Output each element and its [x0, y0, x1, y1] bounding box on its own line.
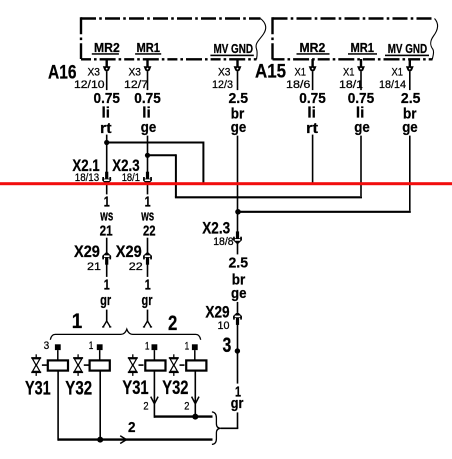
svg-text:ge: ge: [354, 119, 370, 136]
wire label 0.75 li rt: [297, 90, 328, 137]
wire label 0.75 li ge: [346, 90, 377, 136]
svg-text:1: 1: [145, 340, 150, 352]
svg-text:12/7: 12/7: [124, 79, 148, 91]
coil Y31 left: [48, 360, 68, 370]
svg-text:2: 2: [143, 400, 148, 412]
A15 pin X1 18/6: [286, 59, 317, 91]
svg-text:gr: gr: [231, 395, 244, 412]
A16 pin label MR1 (underlined): [135, 41, 161, 55]
control unit A16 box (dash-dot outline, torn right edge): [81, 17, 266, 59]
wire MR2 branch to A15 (horizontal then down): [107, 142, 314, 185]
junction dot MR2 branch: [104, 140, 109, 145]
brace over valve group: [50, 329, 200, 340]
A16 pin X3 12/7: [124, 59, 151, 91]
wire to X29 21 end: [106, 262, 108, 322]
control unit A15 box (dash-dot outline, torn right edge): [273, 17, 438, 59]
pin 3 of Y31 left: [44, 340, 61, 361]
svg-text:18/8: 18/8: [213, 236, 233, 248]
svg-text:X3: X3: [218, 67, 231, 79]
svg-text:2: 2: [128, 419, 136, 436]
svg-text:gr: gr: [100, 292, 111, 309]
svg-text:2.5: 2.5: [229, 255, 249, 272]
svg-text:18/1: 18/1: [339, 79, 363, 91]
connector X29 pin 21: [74, 242, 111, 273]
svg-text:ge: ge: [231, 119, 247, 136]
wire label 2.5 br ge: [227, 254, 251, 302]
svg-text:1: 1: [185, 340, 190, 352]
svg-text:rt: rt: [306, 120, 318, 137]
wire MR2 below interface line: [106, 185, 108, 254]
wire X29 10 down to valves: [237, 322, 239, 429]
connector symbol X2.1 18/13: [105, 172, 108, 179]
connector X2.3 pin 18/1 label: [112, 156, 140, 184]
junction dot MV GND to A15 branch: [235, 209, 241, 215]
coil Y32 left: [90, 360, 110, 370]
svg-text:3: 3: [223, 334, 232, 357]
svg-text:A15: A15: [255, 61, 286, 83]
wire label 0.75 li ge: [132, 90, 163, 136]
connector X2.1 pin 18/13 label: [72, 156, 99, 184]
valve Y31 (left group) symbol: [31, 354, 47, 376]
wire label 2.5 br ge: [399, 90, 423, 136]
wire A16 MR1 down from pin: [147, 72, 149, 175]
svg-text:MR2: MR2: [300, 41, 326, 55]
valve Y31 (right group) symbol: [128, 354, 144, 376]
wire labels 1 gr: [98, 276, 113, 309]
wire labels 1 gr: [229, 384, 246, 413]
wire labels 1 gr: [140, 276, 155, 309]
valve Y32 (right group) symbol: [169, 354, 185, 376]
svg-text:1: 1: [72, 310, 83, 333]
wire end symbol (continuation) 21: [103, 321, 106, 327]
svg-text:2: 2: [168, 312, 177, 335]
svg-text:li: li: [307, 104, 316, 121]
connector X29 pin 10: [205, 302, 242, 332]
svg-text:3: 3: [44, 340, 50, 352]
connector X29 pin 22: [116, 242, 152, 273]
red separation line (current flow highlight): [0, 182, 452, 185]
wire Y32 left to ground bus: [99, 371, 101, 440]
svg-text:li: li: [102, 104, 111, 121]
wire label 0.75 li rt: [92, 90, 123, 137]
wire MV GND branch to A15: [238, 211, 411, 213]
junction dot ground bus 1: [97, 437, 103, 443]
svg-text:MR1: MR1: [137, 41, 161, 55]
wire Y31 left to ground bus: [57, 371, 59, 441]
connector symbol X2.3 18/1: [146, 172, 149, 179]
svg-text:X2.3: X2.3: [202, 219, 230, 238]
wire to X29 22 end: [147, 262, 149, 322]
wire labels 1 ws 22: [139, 193, 158, 239]
svg-text:MR1: MR1: [351, 41, 375, 55]
svg-text:ge: ge: [402, 119, 418, 136]
A16 pin X3 12/3: [212, 59, 241, 91]
svg-text:ge: ge: [231, 285, 247, 302]
A15 pin X1 18/1: [339, 59, 365, 91]
svg-text:22: 22: [129, 261, 143, 273]
svg-text:12/10: 12/10: [74, 79, 105, 91]
svg-text:1: 1: [104, 276, 110, 293]
coil Y31 right: [145, 360, 165, 370]
pin 1 of Y32 right: [185, 340, 198, 360]
svg-text:12/3: 12/3: [212, 79, 233, 91]
junction dot on ground wire: [235, 348, 240, 353]
valve Y32 (left group) symbol: [73, 354, 89, 376]
A16 pin label MV GND (underlined): [210, 42, 253, 56]
wire A16 MR2 down from pin: [106, 72, 108, 175]
svg-text:MV GND: MV GND: [388, 42, 428, 56]
pin 1 of Y32 left: [89, 340, 103, 361]
svg-text:rt: rt: [100, 120, 112, 137]
pin 1 of Y31 right: [145, 340, 157, 360]
svg-text:X3: X3: [129, 67, 142, 79]
A15 pin X1 18/14: [379, 59, 414, 91]
wire end symbol (continuation) 22: [144, 321, 147, 327]
A16 pin label MR2 (underlined): [92, 41, 120, 55]
svg-text:Y32: Y32: [162, 377, 188, 399]
wire bend to collector brace: [221, 427, 238, 429]
coil Y32 right: [186, 360, 206, 370]
wire A16 MV GND down from pin: [237, 72, 239, 233]
svg-text:18/14: 18/14: [379, 79, 406, 91]
A16 pin X3 12/10 (pin arrow into wire): [74, 59, 111, 91]
svg-text:X3: X3: [88, 67, 101, 79]
wire MR1 branch to A15: [148, 154, 362, 197]
A15 pin label MR1 (underlined): [348, 41, 377, 55]
svg-text:18/6: 18/6: [286, 79, 310, 91]
svg-text:Y32: Y32: [65, 378, 92, 400]
svg-text:MV GND: MV GND: [214, 42, 254, 56]
ground bus of right valve group: [154, 415, 212, 417]
wire Y31 right to ground bus 2 with flow arrow: [151, 371, 158, 418]
junction dot MR1 branch: [145, 153, 150, 158]
svg-text:A16: A16: [48, 61, 77, 83]
svg-text:10: 10: [218, 320, 230, 332]
svg-text:MR2: MR2: [94, 41, 120, 55]
wire label 2.5 br ge: [227, 90, 251, 136]
svg-text:X29: X29: [116, 242, 142, 261]
svg-text:Y31: Y31: [122, 377, 148, 399]
svg-text:21: 21: [87, 261, 101, 273]
svg-text:1: 1: [145, 276, 151, 293]
svg-text:gr: gr: [142, 292, 153, 309]
junction dot ground bus 2: [192, 414, 198, 420]
wire A15 MR1 down: [360, 72, 362, 196]
svg-text:X29: X29: [205, 302, 229, 321]
svg-text:Y31: Y31: [25, 378, 51, 400]
wire Y32 right to ground bus 2 with flow arrow: [192, 371, 199, 417]
svg-text:1: 1: [89, 340, 94, 352]
svg-text:X1: X1: [295, 67, 307, 79]
wire MR1 below interface line: [147, 185, 149, 254]
svg-text:X1: X1: [392, 67, 404, 79]
collector brace joining ground buses: [212, 412, 221, 445]
ground bus of left valve group with flow arrow: [58, 436, 212, 444]
wire A15 MV GND down: [409, 72, 411, 211]
connector X2.3 pin 18/8 label: [202, 219, 233, 249]
wire A15 MR2 down to interface line: [312, 72, 314, 184]
A15 pin label MV GND (underlined): [385, 42, 429, 56]
connector symbol X2.3 18/8: [236, 231, 239, 238]
svg-text:22: 22: [143, 222, 156, 239]
wire MV GND to X29 10: [237, 243, 239, 313]
svg-text:21: 21: [100, 222, 113, 239]
wire labels 1 ws 21: [98, 193, 116, 239]
A15 pin label MR2 (underlined): [297, 41, 330, 55]
svg-text:X1: X1: [343, 67, 355, 79]
svg-text:X29: X29: [74, 242, 100, 261]
svg-text:ge: ge: [141, 119, 157, 136]
svg-text:2: 2: [184, 400, 189, 412]
